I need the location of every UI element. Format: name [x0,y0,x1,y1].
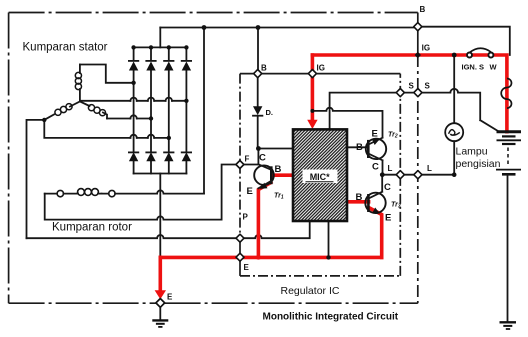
node B (case terminal) [414,23,422,31]
node S (case) [414,89,422,97]
diode D [253,106,262,115]
wire: Tr1 collector vertical [257,149,259,165]
fusible link on battery feed [501,79,511,109]
node E (regulator) [236,253,244,261]
node IG (regulator) [308,70,316,78]
diode D8 (bottom leg4) [182,152,191,161]
junction: rotor feed on B bus [202,25,207,30]
junction: Tr1 emitter on E line [256,255,260,259]
wire: S sense line to battery (hops lamp wire) [418,89,497,131]
wire: S line case to regulator interior, down into MIC top [330,93,418,130]
red wire: IG line from arrow corner through case IG to fusible link corner [312,55,507,132]
node B (regulator) [254,70,262,78]
regulator IC boundary (dash-dot box) [240,74,400,276]
svg-text:P: P [243,213,249,222]
svg-text:D.: D. [266,108,274,117]
op-amp U1 MIC hybrid block [293,129,347,221]
stator phase-3 coil (lower-right diagonal) [80,102,107,119]
svg-text:Tr2: Tr2 [388,132,398,140]
wire: rotor bottom up to F node [222,165,240,220]
svg-text:L: L [388,164,393,173]
svg-text:B: B [420,5,426,14]
wire: P node to MIC bottom (hops Tr1 emitter line) [240,221,310,238]
wire: case B terminal to battery positive [418,27,510,55]
svg-text:B: B [275,164,282,175]
stator phase-2 coil (lower-left diagonal) [44,102,80,120]
junction: lamp bottom corner on L line [452,172,457,177]
wire: F node to Tr1 collector [240,164,259,166]
red wire: Tr3 emitter down to E line [369,208,382,258]
rotor slip ring right [109,190,115,196]
wire: stator neutral to rectifier leg 4 (hops legs 1-3) [80,100,186,102]
wire: phase-2 tap to P line [27,120,45,238]
svg-text:B: B [356,142,363,153]
alternator case boundary (dash-dot frame) [9,13,418,304]
svg-text:IG: IG [422,44,430,53]
junction: regulator B feed on B bus [256,25,261,30]
wire: B feed from bus down to regulator B node [257,28,259,74]
wire: rectifier bottom rail to ground drop [159,174,161,258]
node E (case ground terminal) [156,299,165,308]
wire: battery negative down [507,176,509,322]
node L (regulator) [396,171,404,179]
junction: Tr2 emitter tap on IG drop [310,109,314,113]
wire: rotor left end down and across (hops ground drop) [45,194,222,220]
junction: phase-1 to leg 1 [131,81,135,85]
svg-text:B: B [261,64,267,73]
junction: diode D / Tr1 collector / MIC node [256,146,261,151]
svg-text:Monolithic Integrated Circuit: Monolithic Integrated Circuit [263,312,399,323]
wire: IG tap to Tr2 emitter (hops S drop) [312,108,382,138]
wire: Tr1 collector node to MIC left [258,148,293,150]
transistor Tr2 [366,138,386,161]
battery BT1 [496,132,521,175]
rectifier leg verticals [133,47,135,173]
junction: neutral to leg 4 [184,99,188,103]
ground (battery) [500,322,517,329]
ground (alternator E) [152,307,168,327]
diode D3 (top leg3) [164,61,173,71]
wire: Tr3 collector up to L line [381,175,383,192]
junction: MIC ground lead on E line [326,255,330,259]
junctions: rectifier top rail [131,45,188,49]
diode D7 (bottom leg3) [164,152,173,161]
wire: rotor right end up to B bus [203,28,205,194]
red wire: IG drop into MIC with arrowhead [307,55,317,129]
wire: B bus line to case terminal B [160,27,418,29]
svg-text:Regulator IC: Regulator IC [281,285,340,297]
svg-text:IG: IG [317,64,325,73]
svg-text:S: S [425,82,431,91]
red wire: E line across regulator bottom [160,256,381,260]
wire: P line from stator tap to P node (hops ground drop) [27,235,240,238]
svg-text:Kumparan stator: Kumparan stator [23,42,108,54]
wire: phase-2 to rectifier leg 3 (hops legs 1-2) [44,120,169,138]
svg-text:Tr1: Tr1 [274,193,284,201]
diode D4 (top leg4) [182,61,191,71]
junction: phase-2 to leg 3 [167,136,171,140]
junction: phase-2 tap [42,118,46,122]
diode D1 (top leg1) [129,61,138,71]
junction: lamp tap on IG line [452,53,457,58]
rotor field coil [77,189,102,196]
wire: Tr2 base from MIC right [347,146,368,148]
ignition switch IGN.SW [467,48,493,57]
svg-text:E: E [247,186,253,197]
diode D6 (bottom leg2) [146,152,155,161]
wire: rotor top line (hops ground drop) [45,190,204,193]
svg-text:B: B [356,192,363,203]
wire: L line from collectors to lamp drop [382,174,454,176]
svg-text:W: W [490,63,498,72]
red wire: Tr1 emitter down to E line [258,183,270,258]
svg-text:IGN. S: IGN. S [462,63,485,72]
junction: phase-3 to leg 2 [149,116,153,120]
svg-text:C: C [372,162,379,173]
svg-text:C: C [384,182,391,193]
wire: Tr2 collector down to L line [382,161,384,175]
svg-text:pengisian: pengisian [456,158,501,170]
transistor Tr1 [254,164,274,189]
svg-text:E: E [385,213,391,224]
red wire: E drop to ground with arrowhead [155,257,166,299]
svg-text:C: C [259,153,266,164]
wire: MIC bottom to E line [328,221,330,257]
svg-text:L: L [427,164,432,173]
red wire: Tr1 base from MIC left [272,173,293,177]
wire: diode D feed below B node [257,74,259,149]
charge lamp [445,55,463,175]
node S (regulator) [396,89,404,97]
node F [236,161,244,169]
rotor slip ring left [57,190,63,196]
diode D5 (bottom leg1) [129,152,138,161]
svg-text:F: F [245,155,250,164]
svg-text:MIC*: MIC* [310,172,330,182]
svg-text:E: E [244,263,250,272]
red wire: Tr3 base from MIC right [347,200,369,204]
wire: phase-3 to rectifier leg 2 (hops leg 1) [107,118,151,120]
junction: Tr2-Tr3 collectors on L line [380,172,385,177]
diode D2 (top leg2) [146,61,155,71]
node P [236,234,244,242]
svg-text:E: E [372,129,378,140]
svg-text:Tr3: Tr3 [391,202,401,210]
rectifier bottom rail [134,173,187,175]
rectifier top rail [134,46,187,48]
node L (case) [414,171,422,179]
stator phase-1 coil (vertical) [75,65,81,102]
node IG (case terminal) [415,52,421,58]
wire: phase-1 to rectifier leg 1 [80,65,134,83]
svg-text:S: S [409,82,415,91]
wire: rectifier output riser to B line [159,28,161,48]
transistor Tr3 [365,192,385,214]
svg-text:Kumparan rotor: Kumparan rotor [52,222,132,234]
svg-text:Lampu: Lampu [456,146,488,158]
svg-text:E: E [167,293,173,302]
